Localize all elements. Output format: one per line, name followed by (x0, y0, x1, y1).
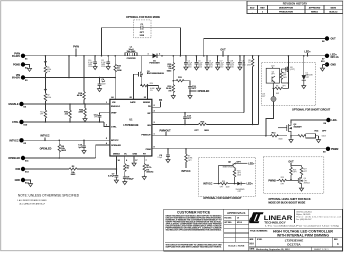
svg-text:GATE: GATE (130, 101, 136, 104)
resistor R5 + capacitor C8 on VC (123, 156, 135, 185)
optional buck mode box (126, 16, 160, 38)
svg-text:(OPT): (OPT) (290, 69, 295, 71)
net flag OPENLED right (190, 90, 210, 93)
resistor R24 in lower box (233, 169, 242, 185)
net flag above Q3 (271, 65, 276, 68)
mosfet M1 in box (286, 55, 296, 88)
wire PVIN to VIN link (68, 55, 70, 78)
svg-text:PCB DES.: PCB DES. (224, 218, 232, 220)
svg-text:LED-: LED- (332, 119, 338, 122)
svg-text:LED+: LED+ (304, 51, 311, 54)
diode D1 PDS5100H (148, 53, 162, 64)
svg-text:OPT: OPT (194, 130, 199, 132)
svg-text:10k: 10k (47, 71, 50, 73)
terminal E14 DIM (16, 167, 30, 174)
svg-text:1210: 1210 (101, 66, 105, 68)
svg-text:1210: 1210 (88, 66, 92, 68)
svg-text:Si426DY: Si426DY (294, 125, 303, 128)
transistor Q3 in box (266, 68, 279, 83)
svg-text:R25: R25 (281, 177, 284, 179)
capacitor C1 (140, 24, 145, 37)
net flag LED+ above bus (304, 51, 311, 57)
svg-text:ECO: ECO (250, 7, 255, 9)
svg-text:DESCRIPTION: DESCRIPTION (279, 7, 294, 9)
svg-text:PWMOUT: PWMOUT (160, 129, 172, 132)
svg-text:SCALE = NONE: SCALE = NONE (228, 245, 245, 248)
terminal E4 ENABLE (8, 102, 26, 109)
resistor R1 499k (44, 55, 51, 78)
terminal E6 OUT (322, 36, 336, 43)
resistor R19 1ohm to VIN pin (114, 55, 123, 99)
wire PWM to E9 (152, 147, 326, 149)
svg-text:PDS5100H: PDS5100H (149, 63, 160, 65)
resistor R14 OPT (291, 130, 327, 143)
terminal E7 LED+ (322, 54, 339, 61)
svg-text:OUT: OUT (331, 38, 337, 41)
svg-text:1210: 1210 (209, 67, 213, 69)
resistor R26 in box (290, 166, 302, 180)
resistor R25 in box (277, 177, 292, 185)
svg-text:OPT: OPT (322, 131, 327, 133)
terminal E12 GND (15, 178, 33, 187)
svg-text:DATE:: DATE: (250, 248, 255, 251)
svg-text:VREF: VREF (111, 113, 117, 115)
capacitor C5 (205, 55, 214, 70)
resistor R10 (167, 55, 175, 81)
svg-text:649: 649 (276, 93, 279, 95)
svg-text:0603: 0603 (279, 139, 283, 141)
capacitor C10 (88, 55, 97, 70)
capacitor C11 (101, 55, 110, 70)
svg-text:1%: 1% (150, 90, 153, 92)
gate wire to IC (134, 74, 139, 99)
capacitor C3 (194, 55, 203, 70)
svg-text:49.9k: 49.9k (77, 94, 83, 97)
resistor R8 in box (273, 83, 289, 95)
resistor R15 in box (280, 68, 289, 84)
svg-text:ALL CAPACITORS ARE IN µF: ALL CAPACITORS ARE IN µF (20, 202, 46, 205)
svg-text:OPENLED: OPENLED (40, 148, 52, 151)
svg-text:R8: R8 (276, 86, 278, 88)
svg-text:0.47µF: 0.47µF (108, 175, 115, 178)
resistor R22 249k (78, 103, 87, 121)
capacitor C17 (216, 55, 225, 70)
wire Q5 base left and down (218, 166, 233, 185)
svg-text:NOTE: UNLESS OTHERWISE SPECIFI: NOTE: UNLESS OTHERWISE SPECIFIED (18, 193, 80, 197)
svg-text:1210: 1210 (188, 67, 192, 69)
net flag INTVCC (40, 135, 49, 142)
resistor R17 OPT (40, 104, 47, 123)
wire OPENLED (25, 142, 110, 158)
svg-text:PWM2: PWM2 (331, 148, 339, 151)
svg-text:2.2µF: 2.2µF (157, 157, 162, 159)
revision history table (247, 1, 343, 13)
op-amp U1 LT3763EUHE (110, 99, 152, 156)
svg-text:DC1772A: DC1772A (287, 243, 301, 247)
net flag FB (152, 99, 162, 107)
wire ISP drop (243, 55, 245, 113)
svg-text:LED+: LED+ (248, 163, 255, 166)
svg-text:Fax: (408) 434-0507: Fax: (408) 434-0507 (296, 219, 311, 221)
svg-text:100k: 100k (47, 97, 51, 99)
svg-text:TITLE: SCHEMATIC: TITLE: SCHEMATIC (250, 229, 268, 232)
svg-text:DATE: DATE (331, 6, 337, 9)
svg-text:DIM: DIM (16, 168, 20, 171)
svg-text:REV: REV (260, 7, 265, 9)
resistor R9 1ohm drop (247, 55, 254, 125)
capacitor C12 OPT on VREF (94, 113, 110, 123)
svg-text:N/A: N/A (250, 242, 255, 246)
capacitor C14 OPT (183, 112, 192, 125)
svg-text:06-06-12: 06-06-12 (329, 11, 338, 13)
IC top pin numbers (111, 96, 147, 99)
terminal E10 CTRL (12, 120, 28, 127)
svg-text:DMS63: DMS63 (113, 153, 121, 155)
terminal E13 GND (320, 61, 336, 71)
wire DIM + resistor R3 (25, 166, 116, 176)
capacitor C15 on INTVCC (78, 140, 86, 154)
capacitor C7 0.47uF (108, 156, 121, 183)
optional short circuit box lower (198, 157, 255, 200)
resistor R13 sense (270, 133, 286, 141)
svg-text:1. ALL RESISTORS ARE IN OHMS: 1. ALL RESISTORS ARE IN OHMS (17, 199, 47, 202)
net flag PWM2 in box (268, 180, 276, 183)
svg-text:LED+: LED+ (247, 183, 254, 186)
svg-text:300kHz: 300kHz (146, 172, 153, 174)
svg-text:OPT: OPT (187, 118, 192, 120)
svg-text:24k3: 24k3 (237, 175, 241, 177)
svg-text:OPENLED: OPENLED (111, 145, 121, 147)
svg-text:OPT: OPT (140, 32, 145, 34)
diode D2 in box (302, 55, 313, 89)
transistor Q5 in lower box (223, 162, 242, 169)
svg-text:VIN: VIN (112, 102, 116, 104)
svg-text:6V-60V: 6V-60V (12, 77, 20, 80)
svg-text:1k69: 1k69 (226, 186, 230, 188)
svg-text:60V-1A: 60V-1A (331, 56, 339, 59)
wire Q2 drain to LED- (291, 120, 326, 123)
svg-text:2k05: 2k05 (283, 77, 287, 79)
svg-text:APPROVALS: APPROVALS (227, 211, 245, 215)
svg-text:LT3763EUHE: LT3763EUHE (123, 124, 138, 127)
wire ISN + resistor R16 (152, 122, 259, 133)
resistor R6 RT (142, 156, 153, 180)
net flag INTVCC in lower box (203, 182, 212, 185)
svg-text:BSC320N20NS3G: BSC320N20NS3G (147, 73, 164, 75)
svg-text:APPROVED: APPROVED (309, 6, 321, 9)
optional short circuit box (262, 63, 331, 112)
svg-text:0603: 0603 (322, 136, 326, 138)
wire PWMOUT long (152, 129, 271, 135)
svg-text:GND: GND (133, 153, 138, 155)
svg-text:1210: 1210 (242, 65, 246, 67)
resistor R27 in box (300, 166, 308, 177)
mosfet Q1 (139, 56, 165, 78)
svg-text:LTC Confidential-For Customer: LTC Confidential-For Customer Use Only (265, 225, 339, 228)
svg-text:COOPER: COOPER (127, 58, 136, 60)
svg-text:1%: 1% (168, 90, 171, 92)
svg-text:ENABLE: ENABLE (8, 103, 18, 106)
svg-text:PWMOUT: PWMOUT (141, 134, 151, 136)
svg-text:1210: 1210 (230, 67, 234, 69)
terminal E1 PVIN (12, 53, 28, 61)
svg-text:ISN: ISN (147, 125, 151, 127)
resistor R11 horizontal (173, 77, 191, 82)
wire Q5 emitter to LED+ flag (236, 163, 255, 166)
title area (249, 228, 343, 251)
terminal E5 INTVCC (9, 138, 26, 145)
svg-text:INTVCC: INTVCC (203, 182, 212, 185)
wire ISP (152, 110, 244, 113)
svg-text:WITH INTERNAL PWM DIMMING: WITH INTERNAL PWM DIMMING (277, 233, 330, 237)
svg-text:MODE OR BUCK-BOOST MODE: MODE OR BUCK-BOOST MODE (268, 202, 305, 205)
svg-text:R20: R20 (150, 83, 153, 85)
svg-text:IC NO.: IC NO. (257, 239, 263, 241)
svg-text:6V-60V: 6V-60V (12, 55, 20, 58)
wire after inductor to LED+ (137, 55, 327, 57)
ground Q2 source (289, 136, 293, 143)
net flag OUT above bus (220, 49, 226, 57)
svg-text:CUSTOMER NOTICE: CUSTOMER NOTICE (177, 210, 211, 214)
wire VIN rail (23, 77, 115, 79)
capacitor C19 (238, 55, 246, 70)
capacitor C16 electrolytic (271, 93, 276, 102)
svg-text:INTVCC: INTVCC (9, 139, 18, 142)
junction OUT drop (203, 55, 205, 57)
svg-text:MTH-S: MTH-S (237, 222, 242, 224)
resistor R23 in lower box (214, 181, 238, 189)
svg-text:OUT: OUT (220, 49, 226, 52)
resistor R12 56.2k (166, 81, 175, 99)
note text (17, 193, 80, 205)
terminal E9 PWM2 (323, 147, 339, 154)
svg-text:INTVCC: INTVCC (181, 170, 190, 173)
svg-text:PWM2: PWM2 (268, 180, 276, 183)
resistor R7 pullup to INTVCC (181, 148, 192, 173)
terminal E11 OPENLED (8, 156, 29, 163)
resistor R21 21k (64, 103, 71, 123)
svg-text:CTRL: CTRL (111, 126, 117, 128)
svg-text:OPTIONAL FOR BUCK MODE: OPTIONAL FOR BUCK MODE (126, 16, 160, 19)
svg-text:1210: 1210 (198, 67, 202, 69)
wire CTRL (24, 122, 110, 127)
capacitor C6 2.2uF (157, 148, 170, 163)
svg-text:OPTIONAL FOR SHORT CIRCUIT: OPTIONAL FOR SHORT CIRCUIT (203, 197, 242, 200)
wire PVIN rail (23, 55, 125, 57)
svg-text:GND: GND (15, 179, 21, 182)
inductor L1 (125, 47, 137, 60)
svg-text:GND: GND (331, 64, 337, 67)
sense wire to IC (147, 86, 149, 100)
svg-text:OUT: OUT (288, 161, 294, 164)
svg-text:OPT: OPT (192, 88, 197, 90)
svg-text:4700pF: 4700pF (127, 178, 135, 181)
resistor R2 100k (44, 78, 51, 105)
svg-text:TECHNOLOGY: TECHNOLOGY (264, 220, 286, 224)
svg-text:PRODUCTION: PRODUCTION (279, 11, 293, 13)
wire C1 right to bus (143, 28, 181, 57)
svg-text:SENSE: SENSE (143, 102, 151, 104)
svg-text:OPTIONAL FOR SHORT CIRCUIT: OPTIONAL FOR SHORT CIRCUIT (292, 109, 331, 112)
wire ISN drop (258, 55, 260, 124)
LT logo (249, 209, 342, 227)
diode D4 in lower box (236, 182, 254, 193)
capacitor C4 on VIN (97, 77, 106, 92)
svg-text:SHEET 1 OF 1: SHEET 1 OF 1 (314, 249, 329, 251)
optional level shift box (263, 157, 324, 205)
terminal E8 LED- (323, 118, 337, 125)
net flag OUT in box (288, 161, 294, 166)
capacitor C18 (226, 55, 235, 70)
svg-text:1206: 1206 (247, 64, 251, 66)
sense resistor R20 (140, 78, 160, 92)
customer notice box (223, 209, 225, 251)
resistor R4 10k (58, 140, 67, 159)
svg-text:REV.: REV. (334, 239, 338, 241)
svg-text:R23: R23 (222, 181, 225, 183)
svg-text:REVISION HISTORY: REVISION HISTORY (283, 1, 308, 5)
svg-text:OPTIONAL LEVEL SHIFT FOR BUCK: OPTIONAL LEVEL SHIFT FOR BUCK (268, 198, 311, 201)
svg-text:OPENLED: OPENLED (198, 90, 210, 93)
svg-text:INTVCC: INTVCC (111, 140, 119, 142)
svg-text:Wednesday, September 05, 2012: Wednesday, September 05, 2012 (256, 248, 290, 251)
svg-text:EN/UVLO: EN/UVLO (111, 106, 121, 108)
svg-text:INTVCC: INTVCC (40, 135, 49, 138)
capacitor C16 in box (262, 88, 274, 97)
svg-text:CTRL: CTRL (12, 121, 19, 124)
capacitor C2 (184, 55, 193, 70)
junction at D1 cathode (161, 55, 163, 57)
svg-text:2N7002: 2N7002 (304, 183, 310, 185)
wire ENABLE (24, 102, 110, 104)
svg-text:PWM: PWM (146, 149, 151, 151)
terminal E2 PGND (13, 62, 32, 71)
ground GND pin (132, 156, 138, 166)
capacitor C13 OPT (188, 81, 197, 99)
resistor R18 49.9k divider (77, 55, 85, 104)
wire INTVCC (24, 138, 110, 140)
net flag PVIN (73, 46, 79, 57)
svg-text:NSW-G: NSW-G (311, 11, 318, 13)
transistor Q4 in box (290, 177, 310, 192)
wire OUT top (204, 39, 327, 56)
svg-text:OPENLED: OPENLED (8, 157, 20, 160)
mosfet Q2 (278, 123, 302, 137)
svg-text:MMBT3906: MMBT3906 (223, 166, 232, 168)
svg-text:FB: FB (159, 99, 162, 102)
svg-text:PVIN: PVIN (73, 46, 79, 49)
terminal E3 VIN (12, 74, 28, 82)
svg-text:1210: 1210 (219, 67, 223, 69)
svg-text:PGND: PGND (13, 64, 20, 67)
wire C1 left to PVIN rail (101, 28, 141, 57)
wire box exit down (265, 102, 273, 137)
